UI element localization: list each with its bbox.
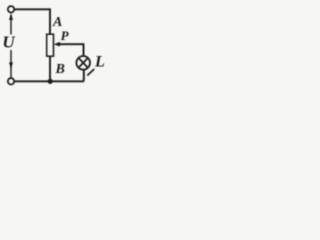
wire bottom horizontal — [14, 80, 84, 82]
wire top horizontal — [14, 9, 50, 34]
wiper arrowhead left — [54, 42, 60, 47]
lamp cross — [79, 58, 88, 68]
U arrow lower segment — [10, 50, 12, 78]
U arrow upper segment — [10, 15, 12, 35]
wire B stub — [49, 56, 51, 81]
junction dot — [48, 79, 53, 84]
wire lamp to bottom — [83, 69, 85, 81]
lamp L — [76, 56, 90, 70]
svg-text:B: B — [55, 62, 65, 77]
svg-text:L: L — [94, 53, 105, 70]
stray scan mark — [87, 69, 94, 76]
terminal top-left — [8, 6, 14, 12]
wiper wire P — [59, 44, 84, 56]
U arrowhead down — [9, 62, 13, 69]
U arrowhead up — [9, 13, 13, 20]
svg-text:U: U — [2, 33, 15, 52]
resistor body (potentiometer) — [47, 34, 54, 56]
terminal bottom-left — [8, 78, 14, 84]
svg-text:P: P — [61, 28, 70, 43]
